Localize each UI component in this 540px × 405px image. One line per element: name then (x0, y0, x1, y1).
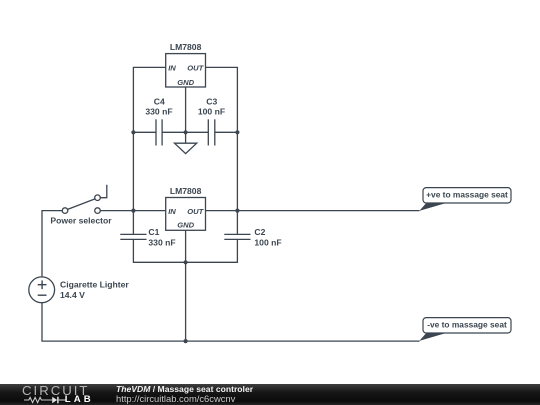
regulator U2 body (166, 198, 206, 231)
svg-text:GND: GND (177, 221, 194, 230)
schematic url (116, 394, 235, 403)
svg-text:Power selector: Power selector (50, 215, 112, 225)
svg-text:LM7808: LM7808 (170, 186, 202, 196)
regulator U1 body (166, 54, 206, 87)
svg-text:OUT: OUT (187, 63, 204, 72)
voltage source V1 body circle (29, 277, 55, 303)
switch SW1 lever (68, 199, 95, 210)
V1 minus mark (38, 294, 47, 296)
junction node: C2 / output wire (235, 209, 239, 213)
switch SW1 upper throw stub wire (100, 185, 107, 198)
svg-text:OUT: OUT (187, 207, 204, 216)
capacitor C3 plates (207, 119, 209, 145)
CircuitLab logo wordmark (22, 385, 89, 396)
junction node: U2 GND / C1-C2 link (184, 260, 188, 264)
svg-text:330 nF: 330 nF (148, 238, 175, 248)
wire C1 bottom to C2 bottom link (133, 239, 237, 262)
wire battery top to switch common (42, 211, 62, 277)
wire right vertical node: U1 OUT down through C2 (206, 67, 238, 234)
svg-text:-ve to massage seat: -ve to massage seat (427, 320, 507, 330)
svg-text:C4: C4 (154, 97, 165, 107)
junction node: C1 / input wire (131, 209, 135, 213)
ground (175, 143, 197, 153)
svg-text:100 nF: 100 nF (254, 238, 281, 248)
schematic title (116, 385, 253, 394)
switch SW1 common terminal (62, 208, 68, 214)
svg-text:GND: GND (177, 78, 194, 87)
net flag box (-ve) (423, 318, 511, 333)
wire U2 OUT to +ve flag (206, 210, 420, 212)
capacitor C2 plates (224, 233, 250, 235)
svg-text:C2: C2 (254, 227, 265, 237)
net flag box (+ve) (423, 188, 511, 203)
svg-text:C1: C1 (148, 227, 159, 237)
svg-text:100 nF: 100 nF (198, 107, 225, 117)
svg-text:Cigarette Lighter: Cigarette Lighter (60, 280, 129, 290)
LAB text (65, 395, 94, 404)
svg-text:14.4 V: 14.4 V (60, 290, 85, 300)
resistor-diode squiggle in logo (24, 396, 66, 404)
svg-text:330 nF: 330 nF (145, 107, 172, 117)
junction node: C3 / U1-OUT rail (235, 130, 239, 134)
junction node: GND lead / bottom rail (184, 339, 188, 343)
svg-text:LM7808: LM7808 (170, 42, 202, 52)
wire capacitor row left segment (133, 131, 156, 133)
wire U2 GND down to bottom rail (185, 230, 187, 341)
wire battery bottom to bottom rail to -ve flag (42, 303, 420, 342)
footer bar (0, 384, 540, 405)
svg-text:C3: C3 (206, 97, 217, 107)
svg-text:IN: IN (168, 63, 176, 72)
svg-text:IN: IN (168, 207, 176, 216)
net flag tail (+ve) (419, 203, 447, 211)
wire capacitor row right segment (215, 131, 238, 133)
wire capacitor row middle segment (162, 131, 208, 133)
switch SW1 lower throw terminal (95, 208, 101, 214)
svg-text:+ve to massage seat: +ve to massage seat (426, 190, 508, 200)
switch SW1 upper throw terminal (95, 195, 101, 201)
junction node: ground at capacitor row (184, 130, 188, 134)
V1 plus mark (38, 284, 47, 286)
junction node: C4 / U1-IN rail (131, 130, 135, 134)
wire switch right throw to U2 IN (100, 210, 165, 212)
capacitor C4 plates (155, 119, 157, 145)
capacitor C1 plates (120, 233, 146, 235)
wire left vertical node: U1 IN down through C1 (133, 67, 165, 234)
wire U1 GND to ground symbol (185, 87, 187, 143)
net flag tail (-ve) (419, 333, 447, 341)
